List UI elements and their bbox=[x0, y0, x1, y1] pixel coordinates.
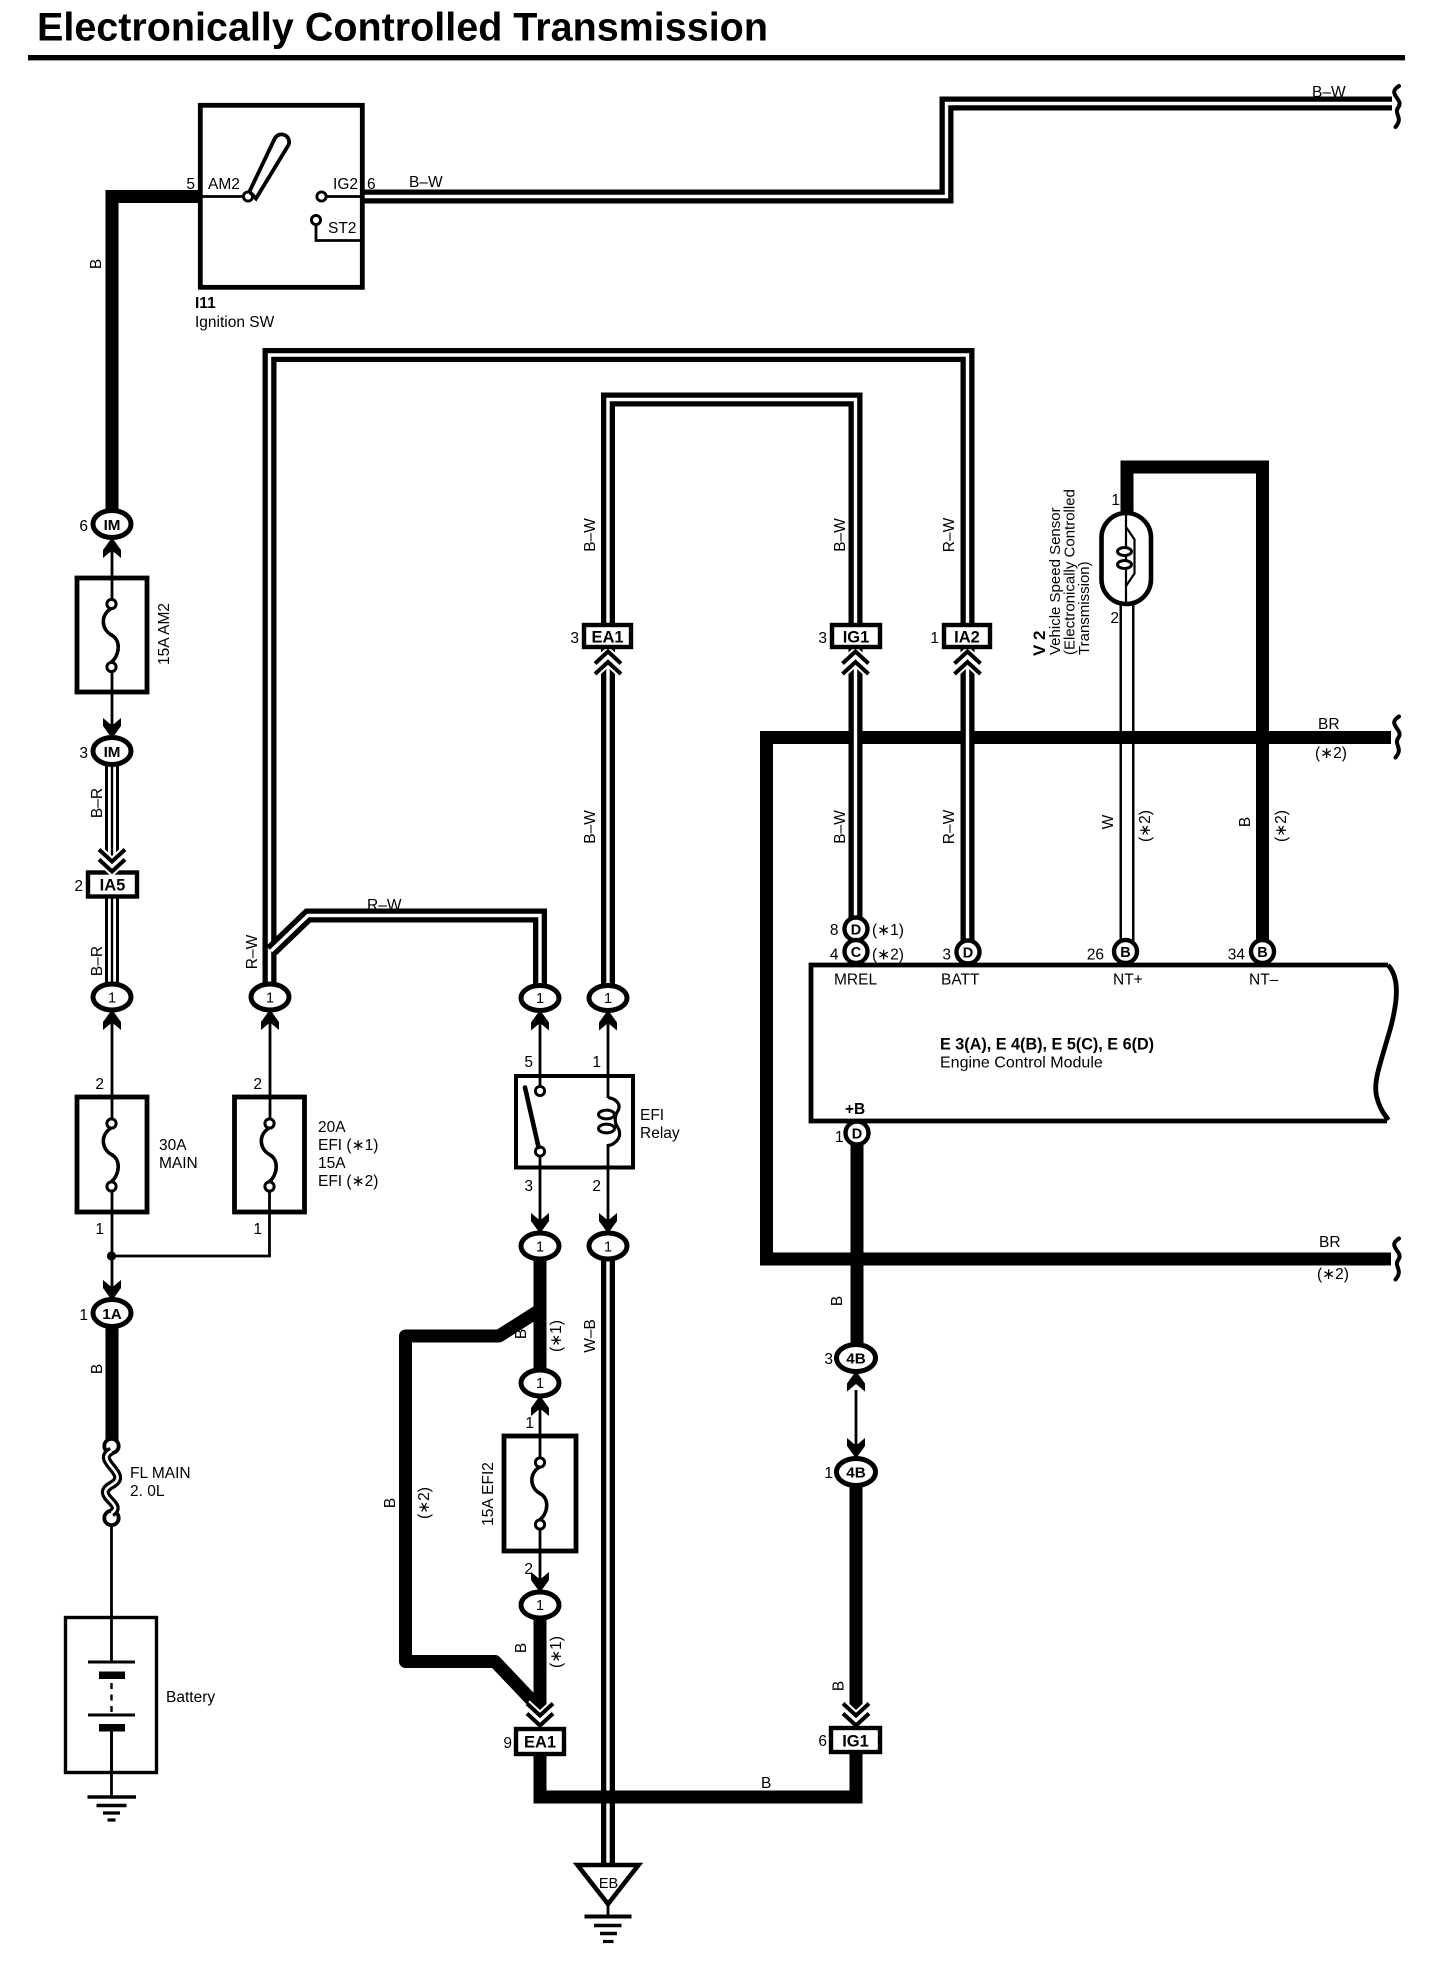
connector box 9 EA1 bbox=[516, 1729, 564, 1754]
svg-text:20A: 20A bbox=[318, 1119, 346, 1136]
svg-text:NT+: NT+ bbox=[1113, 972, 1143, 989]
svg-text:(∗2): (∗2) bbox=[872, 947, 904, 964]
junction dot bbox=[107, 1251, 116, 1260]
svg-text:B: B bbox=[831, 1681, 848, 1691]
ECM terminal circle 8 D bbox=[845, 918, 868, 941]
svg-text:IG1: IG1 bbox=[843, 629, 870, 647]
wire W from vehicle speed sensor pin 2 to NT+ bbox=[1120, 604, 1135, 941]
svg-text:BR: BR bbox=[1319, 1234, 1341, 1251]
svg-text:4B: 4B bbox=[846, 1351, 865, 1368]
svg-text:15A EFI2: 15A EFI2 bbox=[480, 1462, 497, 1526]
svg-text:AM2: AM2 bbox=[208, 176, 240, 193]
thin wire FL MAIN to battery bbox=[110, 1525, 113, 1619]
svg-text:1: 1 bbox=[1111, 492, 1120, 509]
svg-text:MREL: MREL bbox=[834, 972, 877, 989]
svg-text:1: 1 bbox=[536, 1240, 544, 1256]
svg-text:1: 1 bbox=[824, 1465, 833, 1482]
svg-text:1: 1 bbox=[525, 1415, 534, 1432]
svg-text:1: 1 bbox=[536, 1376, 544, 1392]
svg-text:34: 34 bbox=[1228, 947, 1246, 964]
ignition switch lever bbox=[250, 134, 290, 198]
ECM terminal circle 4 C bbox=[845, 940, 868, 963]
svg-text:R–W: R–W bbox=[367, 897, 402, 914]
svg-text:(∗2): (∗2) bbox=[1137, 810, 1154, 842]
svg-text:B–R: B–R bbox=[89, 788, 106, 818]
ECM terminal circle 1 D +B bbox=[846, 1122, 869, 1145]
svg-text:W: W bbox=[1100, 814, 1117, 829]
wire B heavy from 1A connector to FL MAIN bbox=[106, 1325, 119, 1440]
double chevron down into EA1 bottom box bbox=[527, 1704, 553, 1726]
svg-text:(∗2): (∗2) bbox=[416, 1487, 433, 1519]
svg-text:4B: 4B bbox=[846, 1465, 865, 1482]
thin wire IM oval to fuse 15A AM2 bbox=[111, 537, 114, 600]
svg-text:BATT: BATT bbox=[941, 972, 980, 989]
svg-text:FL MAIN: FL MAIN bbox=[130, 1465, 191, 1482]
svg-text:9: 9 bbox=[503, 1735, 512, 1752]
ECM terminal circle 26 B NT+ bbox=[1114, 940, 1137, 963]
connector box 1 IA2 bbox=[944, 625, 990, 647]
svg-text:B: B bbox=[513, 1643, 530, 1653]
svg-text:+B: +B bbox=[845, 1101, 865, 1118]
svg-text:3: 3 bbox=[79, 745, 88, 762]
arrow up into relay pin5 oval bbox=[531, 1010, 549, 1031]
svg-text:1: 1 bbox=[536, 1598, 544, 1614]
svg-text:30A: 30A bbox=[159, 1137, 187, 1154]
wire EB triangle tip to ground bbox=[607, 1904, 610, 1916]
arrow down into 3 IM bbox=[103, 718, 121, 739]
wire B heavy from relay pin 3 oval to EFI2 fuse oval bbox=[534, 1257, 547, 1374]
svg-text:EB: EB bbox=[599, 1876, 618, 1892]
wire B heavy from ECM +B terminal to 4B connector bbox=[851, 1144, 864, 1347]
thin wire fuse 30A MAIN through junction to 1A oval bbox=[111, 1190, 114, 1301]
svg-text:B: B bbox=[1257, 945, 1267, 961]
svg-text:5: 5 bbox=[524, 1054, 533, 1071]
svg-text:1: 1 bbox=[79, 1307, 88, 1324]
svg-text:R–W: R–W bbox=[941, 809, 958, 844]
connector oval 1 (relay pin 1) bbox=[589, 986, 627, 1011]
fuse 15A EFI2 box bbox=[504, 1436, 576, 1551]
svg-text:EFI (∗2): EFI (∗2) bbox=[318, 1173, 378, 1190]
svg-text:IM: IM bbox=[104, 744, 121, 761]
fuse 15A EFI2 element bbox=[532, 1458, 547, 1529]
svg-text:EFI: EFI bbox=[640, 1107, 664, 1124]
svg-text:D: D bbox=[963, 946, 973, 962]
break symbol BR lower bbox=[1394, 1239, 1399, 1280]
ignition switch I11 box bbox=[200, 105, 362, 287]
svg-text:D: D bbox=[852, 1127, 862, 1143]
thin wire oval 1 to fuse 20A EFI bbox=[269, 1009, 272, 1120]
connector oval 1 (20A EFI column) bbox=[251, 984, 289, 1010]
EFI relay box bbox=[516, 1076, 633, 1168]
svg-text:B–R: B–R bbox=[89, 946, 106, 976]
svg-text:IM: IM bbox=[104, 517, 121, 534]
wire B-R from IM connector to IA5 bbox=[105, 750, 119, 873]
svg-text:B: B bbox=[1120, 945, 1130, 961]
wire B-R from IA5 to connector 1 bbox=[105, 896, 119, 990]
svg-text:1: 1 bbox=[536, 991, 544, 1007]
fuse 15A AM2 element bbox=[103, 599, 118, 671]
svg-text:3: 3 bbox=[824, 1351, 833, 1368]
arrow up into relay pin1 oval bbox=[599, 1010, 617, 1031]
connector oval 1 (below EFI2 fuse) bbox=[521, 1592, 559, 1618]
connector box 3 IG1 bbox=[832, 625, 880, 647]
svg-text:1A: 1A bbox=[102, 1306, 121, 1323]
svg-text:2: 2 bbox=[592, 1178, 601, 1195]
connector oval 1A bbox=[93, 1300, 131, 1327]
wire B-W from ignition switch IG2 to top-right break bbox=[362, 104, 1392, 197]
thin wire fuse EFI2 to oval bbox=[539, 1527, 542, 1594]
svg-text:EA1: EA1 bbox=[524, 1734, 556, 1752]
svg-text:4: 4 bbox=[830, 947, 839, 964]
svg-text:ST2: ST2 bbox=[328, 220, 356, 237]
arrow up into oval 1 right bbox=[261, 1010, 279, 1031]
battery internals bbox=[88, 1619, 135, 1771]
svg-text:2: 2 bbox=[253, 1076, 262, 1093]
fuse 20A EFI element bbox=[261, 1119, 276, 1191]
EFI relay coil bbox=[599, 1098, 620, 1146]
ignition switch ST2 contact bbox=[311, 215, 320, 224]
wire R-W branch to EFI relay pin 5 bbox=[271, 916, 540, 987]
wire R-W from IA2 connector down to BATT terminal bbox=[961, 647, 975, 941]
svg-text:1: 1 bbox=[604, 991, 612, 1007]
svg-text:6: 6 bbox=[818, 1733, 827, 1750]
break symbol B-W top right bbox=[1394, 86, 1399, 127]
wire W-B from EFI relay pin 2 to EB ground bbox=[601, 1246, 615, 1864]
svg-text:Transmission): Transmission) bbox=[1076, 561, 1093, 655]
svg-text:I11: I11 bbox=[195, 295, 216, 312]
svg-text:Engine Control Module: Engine Control Module bbox=[940, 1055, 1103, 1072]
wire B heavy from 4B connector to bottom IG1 connector bbox=[850, 1484, 863, 1724]
svg-text:W–B: W–B bbox=[582, 1319, 599, 1353]
connector oval 1 (above EFI2 fuse) bbox=[521, 1370, 559, 1396]
svg-text:(∗2): (∗2) bbox=[1315, 745, 1347, 762]
double chevron down into IA5 box bbox=[99, 850, 125, 872]
arrow up into 6 IM bbox=[103, 538, 121, 559]
svg-text:2. 0L: 2. 0L bbox=[130, 1483, 165, 1500]
svg-text:15A AM2: 15A AM2 bbox=[156, 603, 173, 665]
svg-text:B–W: B–W bbox=[832, 518, 849, 552]
ground under EB bbox=[585, 1917, 632, 1942]
svg-text:1: 1 bbox=[95, 1221, 104, 1238]
svg-text:Battery: Battery bbox=[166, 1689, 215, 1706]
EFI relay switch contact top bbox=[535, 1086, 544, 1095]
svg-text:EA1: EA1 bbox=[591, 629, 623, 647]
connector 2 IA5 box bbox=[88, 873, 137, 897]
svg-text:Relay: Relay bbox=[640, 1125, 680, 1142]
svg-text:E 3(A), E 4(B), E 5(C), E 6(D): E 3(A), E 4(B), E 5(C), E 6(D) bbox=[940, 1036, 1154, 1054]
svg-text:B–W: B–W bbox=[582, 518, 599, 552]
ignition switch IG2 pin stub bbox=[326, 195, 362, 198]
svg-text:2: 2 bbox=[524, 1561, 533, 1578]
connector oval 3 IM bbox=[93, 738, 131, 765]
svg-text:B: B bbox=[382, 1498, 399, 1508]
svg-text:8: 8 bbox=[830, 922, 839, 939]
svg-text:IA5: IA5 bbox=[100, 877, 126, 895]
arrow up into oval 1 left bbox=[103, 1010, 121, 1031]
svg-text:B: B bbox=[1237, 817, 1254, 827]
svg-text:D: D bbox=[851, 923, 861, 939]
svg-text:(∗1): (∗1) bbox=[872, 922, 904, 939]
svg-text:1: 1 bbox=[604, 1240, 612, 1256]
svg-text:C: C bbox=[851, 945, 862, 961]
svg-text:5: 5 bbox=[186, 176, 195, 193]
svg-text:3: 3 bbox=[818, 630, 827, 647]
svg-text:IG2: IG2 bbox=[333, 176, 358, 193]
wire B (*2) heavy bypass path bbox=[406, 1308, 544, 1709]
svg-text:(∗1): (∗1) bbox=[548, 1320, 565, 1352]
double chevron up into EA1 top box bbox=[595, 652, 621, 675]
arrow up into 3 4B oval bbox=[847, 1371, 865, 1392]
fuse 30A MAIN box bbox=[77, 1097, 147, 1212]
svg-text:B: B bbox=[761, 1775, 771, 1792]
wire BR loop with breaks at right edge bbox=[767, 738, 1392, 1260]
engine control module right edge curve bbox=[1376, 965, 1397, 1120]
connector box 6 IG1 bbox=[831, 1728, 880, 1752]
wire B heavy from ignition switch AM2 down to IM connector bbox=[112, 197, 200, 513]
svg-text:BR: BR bbox=[1318, 716, 1340, 733]
ignition switch IG2 contact bbox=[317, 192, 326, 201]
connector oval 1 4B bbox=[837, 1459, 876, 1486]
connector oval 3 4B bbox=[837, 1345, 876, 1372]
svg-text:MAIN: MAIN bbox=[159, 1155, 198, 1172]
engine control module box bbox=[811, 965, 1388, 1121]
vehicle speed sensor internals bbox=[1118, 515, 1135, 602]
arrow down into relay pin2 oval bbox=[599, 1213, 617, 1234]
thin wire between 4B connectors bbox=[855, 1390, 858, 1460]
wire B heavy from EFI2 fuse oval to EA1 connector bbox=[534, 1616, 547, 1724]
svg-text:B: B bbox=[513, 1329, 530, 1339]
double chevron down into IG1 bottom box bbox=[843, 1704, 869, 1726]
arrow up into EFI2 top oval bbox=[531, 1396, 549, 1417]
EB ground triangle bbox=[578, 1865, 639, 1904]
svg-text:3: 3 bbox=[524, 1178, 533, 1195]
svg-text:2: 2 bbox=[95, 1076, 104, 1093]
svg-text:1: 1 bbox=[253, 1221, 262, 1238]
arrow down into 1 4B oval bbox=[847, 1438, 865, 1459]
svg-text:(∗2): (∗2) bbox=[1273, 810, 1290, 842]
svg-text:3: 3 bbox=[942, 947, 951, 964]
svg-text:B: B bbox=[88, 259, 105, 269]
fuse 15A AM2 box bbox=[77, 578, 147, 692]
wire B heavy bottom run EA1 to IG1 bbox=[540, 1753, 856, 1797]
thin wire fuse 20A EFI to junction bbox=[112, 1190, 270, 1256]
svg-text:15A: 15A bbox=[318, 1155, 346, 1172]
wire B-W from EA1 connector down to relay pin 1 oval bbox=[601, 647, 615, 987]
wire B-W from IG1 connector down to MREL terminals bbox=[849, 647, 863, 930]
svg-text:Electronically Controlled Tran: Electronically Controlled Transmission bbox=[37, 6, 768, 50]
thin wire relay coil to pin 2 oval bbox=[607, 1144, 610, 1236]
FL MAIN fusible link bbox=[104, 1439, 118, 1525]
EFI relay switch contact bottom bbox=[535, 1147, 544, 1156]
ignition switch AM2 contact bbox=[243, 192, 252, 201]
svg-text:6: 6 bbox=[367, 176, 376, 193]
svg-text:2: 2 bbox=[1110, 610, 1119, 627]
thin wire relay contact to pin 3 oval bbox=[539, 1155, 542, 1236]
thin wire relay oval to pin 1 coil bbox=[607, 1009, 610, 1098]
ignition switch ST2 pin wire bbox=[316, 224, 362, 241]
battery box bbox=[66, 1618, 157, 1773]
wire B heavy from vehicle speed sensor pin 1 to NT- bbox=[1127, 467, 1263, 941]
connector oval 1 (relay pin 3) bbox=[521, 1233, 559, 1259]
break symbol BR upper bbox=[1394, 717, 1399, 758]
double chevron up into IA2 top box bbox=[955, 652, 981, 675]
connector oval 6 IM bbox=[93, 511, 131, 538]
thin wire oval 1 to fuse 30A MAIN bbox=[111, 1009, 114, 1120]
ECM terminal circle 3 D BATT bbox=[957, 941, 980, 964]
svg-text:R–W: R–W bbox=[941, 517, 958, 552]
svg-text:IA2: IA2 bbox=[954, 629, 980, 647]
svg-text:1: 1 bbox=[835, 1129, 844, 1146]
thin wire fuse 15A AM2 to IM oval bbox=[111, 672, 114, 738]
svg-text:1: 1 bbox=[930, 630, 939, 647]
fuse 30A MAIN element bbox=[103, 1119, 118, 1191]
svg-text:B: B bbox=[829, 1296, 846, 1306]
svg-text:B–W: B–W bbox=[409, 174, 443, 191]
thin wire battery to ground bbox=[110, 1730, 113, 1797]
svg-text:Ignition SW: Ignition SW bbox=[195, 314, 275, 331]
svg-text:1: 1 bbox=[108, 991, 116, 1007]
svg-text:(∗1): (∗1) bbox=[548, 1636, 565, 1668]
wire B-W inner loop: EA1 to IG1 bbox=[608, 400, 856, 627]
ECM terminal circle 34 B NT- bbox=[1251, 940, 1274, 963]
svg-text:EFI (∗1): EFI (∗1) bbox=[318, 1137, 378, 1154]
title rule bbox=[28, 55, 1405, 60]
ground under battery bbox=[88, 1797, 137, 1820]
double chevron up into IG1 top box bbox=[843, 652, 869, 675]
thin wire EFI2 oval to fuse bbox=[539, 1395, 542, 1459]
svg-text:1: 1 bbox=[266, 991, 274, 1007]
connector oval 1 (relay pin 5) bbox=[521, 986, 559, 1011]
svg-text:26: 26 bbox=[1087, 947, 1104, 964]
arrow down into 1A bbox=[103, 1280, 121, 1301]
svg-text:6: 6 bbox=[79, 518, 88, 535]
svg-text:R–W: R–W bbox=[244, 934, 261, 969]
svg-text:IG1: IG1 bbox=[842, 1733, 869, 1751]
wire R-W outer loop: 20A EFI fuse column to IA2 bbox=[270, 355, 968, 986]
vehicle speed sensor V2 body bbox=[1102, 513, 1152, 604]
svg-text:B–W: B–W bbox=[1312, 84, 1346, 101]
svg-text:(∗2): (∗2) bbox=[1317, 1266, 1349, 1283]
ignition switch AM2 pin stub bbox=[200, 195, 244, 198]
svg-text:B–W: B–W bbox=[582, 810, 599, 844]
thin wire relay oval to pin 5 contact bbox=[539, 1009, 542, 1088]
connector oval 1 (relay pin 2) bbox=[589, 1233, 627, 1259]
svg-text:3: 3 bbox=[570, 630, 579, 647]
svg-text:NT–: NT– bbox=[1249, 972, 1279, 989]
connector box 3 EA1 bbox=[584, 625, 631, 647]
EFI relay switch lever bbox=[525, 1088, 539, 1148]
svg-text:2: 2 bbox=[74, 878, 83, 895]
arrow down into EFI2 bottom oval bbox=[531, 1572, 549, 1593]
svg-text:B–W: B–W bbox=[832, 810, 849, 844]
svg-text:1: 1 bbox=[592, 1054, 601, 1071]
connector oval 1 (left fuse column) bbox=[93, 984, 131, 1010]
fuse 20A EFI box bbox=[235, 1097, 305, 1212]
arrow down into relay pin3 oval bbox=[531, 1213, 549, 1234]
svg-text:B: B bbox=[89, 1364, 106, 1374]
